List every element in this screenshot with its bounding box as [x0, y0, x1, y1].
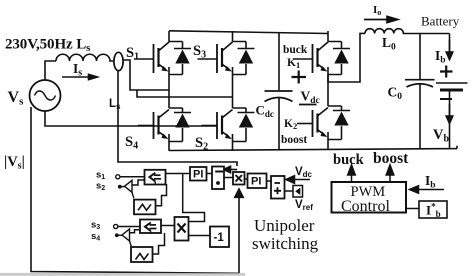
svg-text:-1: -1: [214, 232, 225, 244]
svg-text:buck: buck: [333, 152, 365, 168]
svg-text:Battery: Battery: [421, 14, 460, 29]
svg-text:buck: buck: [283, 44, 308, 56]
svg-text:Control: Control: [341, 198, 390, 215]
svg-text:boost: boost: [281, 134, 307, 146]
svg-text:Unipoler: Unipoler: [254, 216, 315, 235]
svg-text:boost: boost: [373, 150, 409, 167]
svg-text:|Vs|: |Vs|: [4, 154, 25, 172]
svg-text:230V,50Hz Ls: 230V,50Hz Ls: [5, 37, 91, 55]
svg-text:PI: PI: [193, 169, 203, 181]
svg-text:switching: switching: [252, 234, 319, 253]
svg-text:PI: PI: [251, 176, 261, 188]
